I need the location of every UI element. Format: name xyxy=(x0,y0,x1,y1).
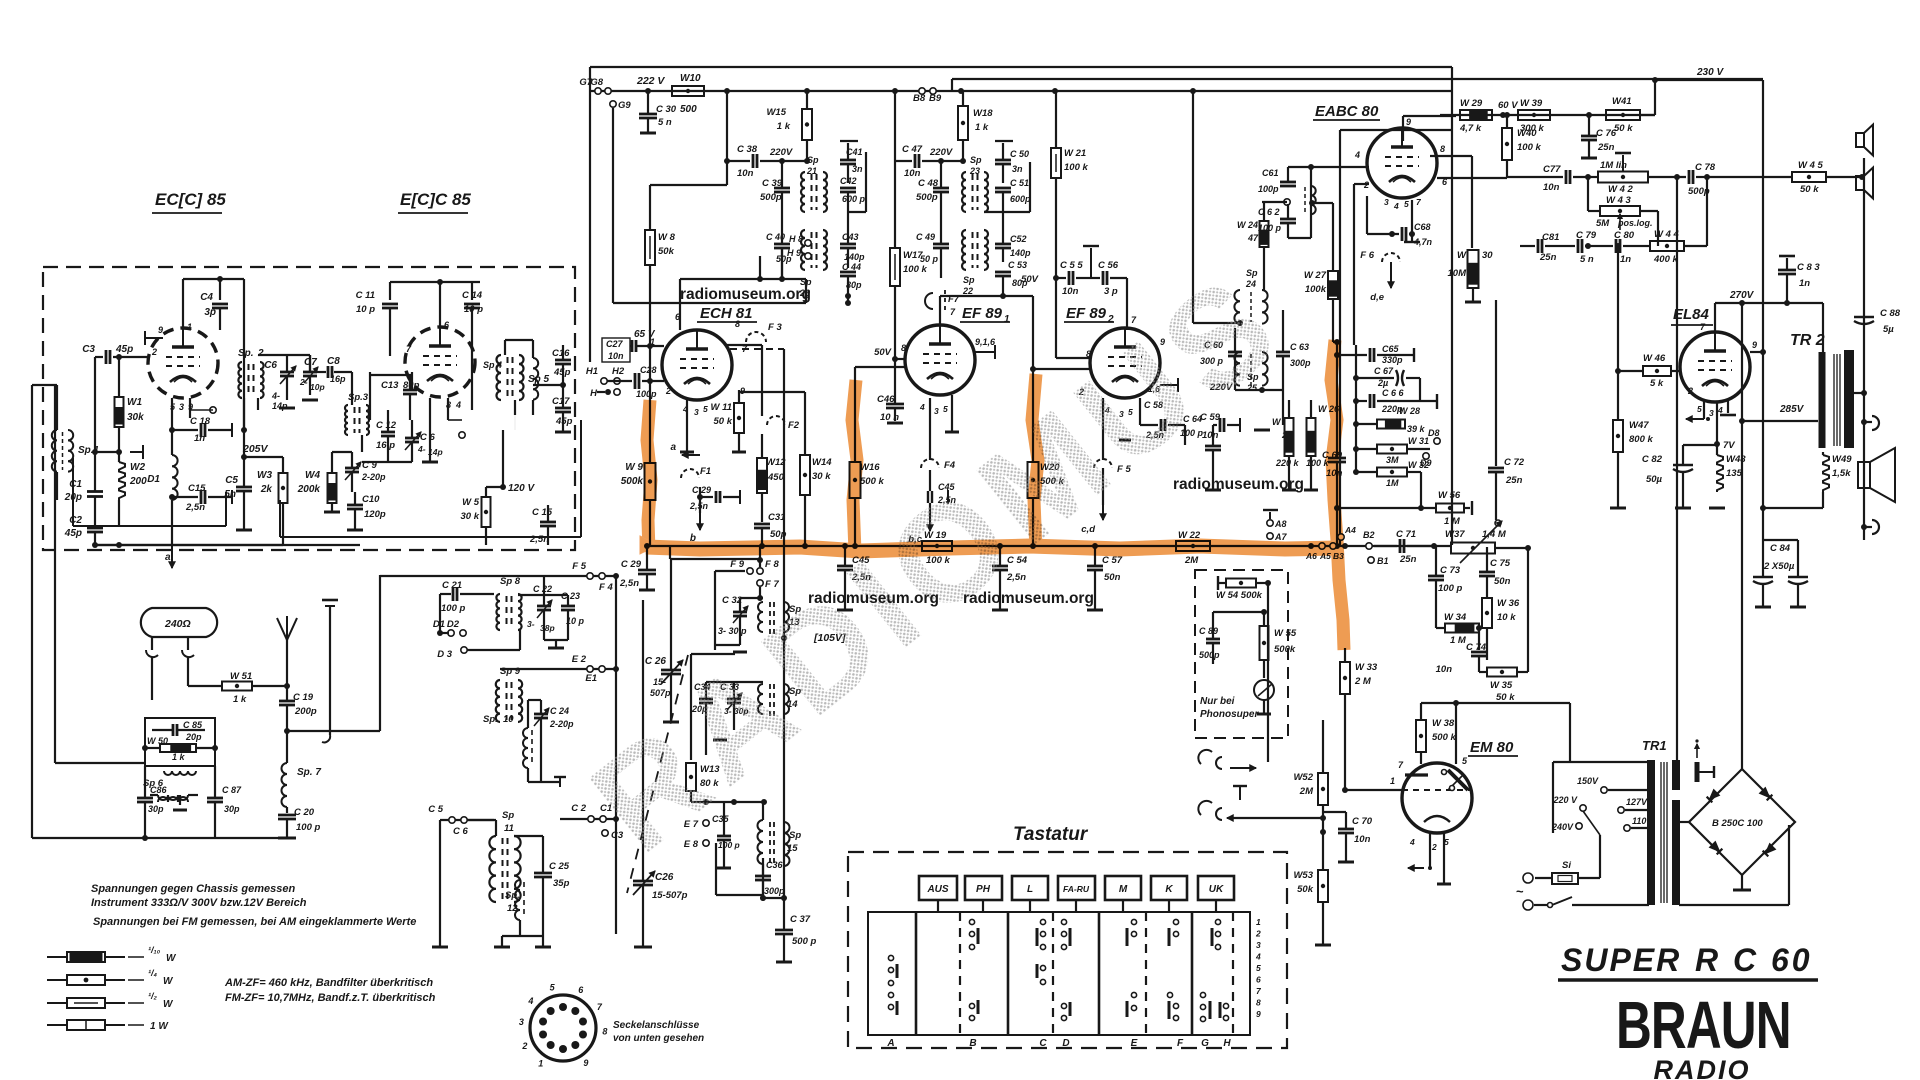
svg-text:4: 4 xyxy=(1409,837,1415,847)
svg-text:EF 89: EF 89 xyxy=(1066,305,1107,322)
svg-text:C 73: C 73 xyxy=(1440,565,1461,576)
svg-text:C31: C31 xyxy=(768,512,785,523)
TR1 windings xyxy=(1647,760,1655,905)
svg-text:C 76: C 76 xyxy=(1596,128,1617,139)
capacitor C78 500p xyxy=(1688,170,1691,184)
svg-text:W48: W48 xyxy=(1726,454,1746,465)
bulb 240 ohm xyxy=(141,608,217,637)
svg-text:200p: 200p xyxy=(294,706,317,717)
svg-text:C28: C28 xyxy=(640,365,657,375)
svg-text:W14: W14 xyxy=(812,457,832,468)
svg-text:C 25: C 25 xyxy=(549,861,570,872)
svg-text:47: 47 xyxy=(1247,233,1259,243)
svg-text:C77: C77 xyxy=(1543,164,1561,175)
svg-text:16 p: 16 p xyxy=(376,440,395,451)
capacitor C45c bus 2,5n xyxy=(837,565,853,568)
svg-text:W1: W1 xyxy=(127,397,142,408)
stub ground between xyxy=(1090,248,1092,278)
svg-text:8: 8 xyxy=(602,1027,607,1037)
svg-text:2: 2 xyxy=(1255,929,1261,939)
svg-text:10n: 10n xyxy=(1543,182,1560,193)
resistor W15 1k xyxy=(802,109,812,140)
resistor W27 100k xyxy=(1328,271,1338,299)
svg-text:W 36: W 36 xyxy=(1497,598,1520,609)
coil D1 choke xyxy=(172,455,178,500)
svg-text:50 k: 50 k xyxy=(1496,692,1515,703)
svg-text:EF 89: EF 89 xyxy=(962,305,1003,322)
svg-text:Seckelanschlüsse: Seckelanschlüsse xyxy=(613,1020,700,1031)
svg-text:W 11: W 11 xyxy=(711,402,732,413)
svg-text:2-20p: 2-20p xyxy=(361,472,386,482)
capacitor C39 500p xyxy=(774,187,790,190)
capacitor C52 140p xyxy=(995,243,1011,246)
svg-text:3n: 3n xyxy=(852,164,863,174)
svg-text:100p: 100p xyxy=(636,389,657,399)
svg-text:222 V: 222 V xyxy=(636,75,665,87)
capacitor C22 3-38p variable xyxy=(537,605,551,608)
svg-text:5: 5 xyxy=(943,404,948,414)
svg-text:4,7 k: 4,7 k xyxy=(1459,123,1482,134)
svg-text:C 18: C 18 xyxy=(190,416,211,427)
semicircle F3 xyxy=(746,332,766,342)
svg-text:50µ: 50µ xyxy=(1646,474,1663,485)
svg-text:80p: 80p xyxy=(846,280,862,290)
orange highlight vertical at C69 xyxy=(1331,340,1337,540)
resistor W18 1k xyxy=(958,106,968,140)
svg-text:1,5k: 1,5k xyxy=(1832,468,1851,479)
svg-text:C 56: C 56 xyxy=(1098,260,1119,271)
svg-text:C 39: C 39 xyxy=(762,178,783,189)
svg-text:radiomuseum.org: radiomuseum.org xyxy=(680,286,811,303)
svg-text:22: 22 xyxy=(962,286,973,296)
svg-text:C 15: C 15 xyxy=(532,507,553,518)
capacitor C57 50n bus xyxy=(1087,565,1103,568)
svg-text:2M: 2M xyxy=(1299,786,1314,797)
outer box right edge xyxy=(1451,67,1453,545)
svg-text:25n: 25n xyxy=(1399,554,1417,565)
svg-text:M: M xyxy=(1119,884,1128,895)
svg-text:W 5: W 5 xyxy=(462,497,480,508)
keyboard column separators xyxy=(915,912,918,1035)
svg-text:50 p: 50 p xyxy=(920,254,939,264)
svg-text:W: W xyxy=(163,976,174,987)
svg-text:C 6: C 6 xyxy=(420,432,436,443)
mains plug xyxy=(1523,873,1533,883)
contact set column F xyxy=(1173,919,1178,924)
svg-text:W53: W53 xyxy=(1293,870,1313,881)
svg-text:50 k: 50 k xyxy=(1800,184,1819,195)
svg-text:9: 9 xyxy=(1406,117,1411,127)
svg-text:W 27: W 27 xyxy=(1304,270,1327,281)
svg-text:A8: A8 xyxy=(1274,519,1287,529)
primary tap 220V xyxy=(1580,805,1586,811)
svg-text:SUPER: SUPER xyxy=(1561,942,1681,978)
svg-text:F 3: F 3 xyxy=(768,322,782,333)
svg-text:W 21: W 21 xyxy=(1064,148,1086,159)
svg-text:G: G xyxy=(1201,1038,1209,1049)
svg-text:A7: A7 xyxy=(1274,532,1287,542)
resistor W3 2k xyxy=(279,473,288,503)
svg-text:9: 9 xyxy=(1752,340,1757,350)
svg-text:2: 2 xyxy=(665,386,671,396)
capacitor C20 100p xyxy=(278,814,296,817)
primary tap 110V xyxy=(1624,825,1630,831)
capacitor C23 10p xyxy=(561,605,575,608)
terminal hook upper xyxy=(1864,421,1872,423)
svg-text:C27: C27 xyxy=(606,339,624,349)
svg-text:4: 4 xyxy=(455,400,461,410)
svg-text:Sp: Sp xyxy=(807,155,819,165)
resistor W51 1k xyxy=(222,682,252,691)
terminal C5 C6 xyxy=(440,819,494,821)
capacitor C88 5u electrolytic xyxy=(1854,316,1874,319)
resistor W35 50k xyxy=(1487,668,1517,677)
svg-text:100 k: 100 k xyxy=(903,264,927,275)
terminal E7 E8 xyxy=(703,820,709,826)
svg-text:radiomuseum.org: radiomuseum.org xyxy=(1173,476,1304,493)
svg-text:2-20p: 2-20p xyxy=(549,719,574,729)
legend resistor 1/2W xyxy=(47,1002,67,1004)
svg-text:500p: 500p xyxy=(760,192,782,203)
svg-text:FA-RU: FA-RU xyxy=(1063,884,1090,894)
svg-text:W4: W4 xyxy=(305,470,320,481)
capacitor C18 1n xyxy=(200,423,203,437)
svg-text:C 11: C 11 xyxy=(356,290,375,301)
terminal hook lower xyxy=(1864,526,1872,528)
wire 205V xyxy=(243,430,245,457)
resistor W39 300k xyxy=(1518,110,1550,120)
speaker small 1 xyxy=(1856,133,1864,147)
resistor W31 3M xyxy=(1377,445,1407,454)
svg-text:30 k: 30 k xyxy=(812,471,831,482)
wire eabc pin6 audio out xyxy=(1437,177,1507,179)
wire phones xyxy=(1228,761,1268,763)
capacitor C40 50p xyxy=(774,243,790,246)
svg-text:4-: 4- xyxy=(271,391,280,401)
resistor W43 5M pos log xyxy=(1600,206,1640,216)
wire plate loop xyxy=(243,279,245,430)
svg-text:D 3: D 3 xyxy=(437,649,453,660)
capacitor C11 10p xyxy=(389,282,391,300)
dashed gang link xyxy=(627,655,688,893)
wire C35 bottom link xyxy=(715,843,717,895)
svg-text:4: 4 xyxy=(1255,952,1261,962)
arrow a down xyxy=(171,545,173,568)
wire ech81 grid stub xyxy=(622,399,650,401)
svg-text:F2: F2 xyxy=(788,420,800,431)
grid stub pin 9 xyxy=(145,337,163,339)
svg-text:D: D xyxy=(1062,1038,1069,1049)
svg-text:C 80: C 80 xyxy=(1614,230,1635,241)
outer box top line xyxy=(590,66,1452,68)
svg-text:5: 5 xyxy=(1256,963,1261,973)
wire IF2 bottom xyxy=(940,295,1003,297)
wire tr2 secondary top xyxy=(1852,367,1875,369)
svg-text:2: 2 xyxy=(151,347,157,357)
svg-text:2: 2 xyxy=(1431,842,1437,852)
capacitor C19 200p xyxy=(279,700,295,703)
svg-text:30p: 30p xyxy=(148,804,164,814)
svg-text:1 k: 1 k xyxy=(777,121,791,132)
svg-text:W 34: W 34 xyxy=(1444,612,1467,623)
svg-text:C 37: C 37 xyxy=(790,914,811,925)
svg-text:50V: 50V xyxy=(874,347,892,358)
svg-text:10 p: 10 p xyxy=(356,304,375,315)
svg-text:500k: 500k xyxy=(1274,644,1296,655)
svg-text:F 6: F 6 xyxy=(1360,250,1374,261)
svg-text:450: 450 xyxy=(767,472,785,483)
capacitor C68 4,7n xyxy=(1401,227,1404,241)
svg-text:500k: 500k xyxy=(621,476,644,487)
resistor W14 30k xyxy=(800,455,810,495)
resistor W19 100k on bus xyxy=(922,541,952,551)
earth terminal xyxy=(322,337,600,339)
svg-text:8: 8 xyxy=(735,319,740,329)
svg-text:100 k: 100 k xyxy=(1064,162,1088,173)
semicircle F7 xyxy=(939,296,941,325)
svg-text:5 k: 5 k xyxy=(1650,378,1664,389)
svg-text:C 29: C 29 xyxy=(692,485,711,495)
svg-text:C 19: C 19 xyxy=(293,692,314,703)
svg-text:AM-ZF= 460 kHz, Bandfilter üb: AM-ZF= 460 kHz, Bandfilter überkritisch xyxy=(224,977,433,989)
terminal A4 xyxy=(1338,534,1344,540)
resistor W22 2M on bus xyxy=(1176,541,1210,551)
svg-text:2,5n: 2,5n xyxy=(689,501,709,511)
svg-text:C6: C6 xyxy=(264,360,277,371)
svg-text:300p: 300p xyxy=(764,886,785,896)
svg-text:50V: 50V xyxy=(1021,274,1039,285)
resistor W5 30k xyxy=(482,497,491,527)
capacitor C25 35p xyxy=(534,872,552,875)
svg-text:W 38: W 38 xyxy=(1432,718,1455,729)
primary tap 127V xyxy=(1618,807,1624,813)
orange highlight vertical at W16 xyxy=(852,380,857,552)
svg-text:C 9: C 9 xyxy=(362,460,378,471)
svg-text:39 k: 39 k xyxy=(1407,424,1426,434)
wire bottom rail xyxy=(95,544,244,546)
orange highlight horizontal AVC bus xyxy=(640,340,1344,650)
svg-text:C 89: C 89 xyxy=(1199,626,1218,636)
svg-text:EL84: EL84 xyxy=(1673,306,1710,323)
wire eabc pin2 to ladder xyxy=(1354,183,1369,185)
svg-text:8: 8 xyxy=(1440,144,1445,154)
anode top wire xyxy=(182,279,184,328)
svg-text:127V: 127V xyxy=(1626,797,1648,807)
svg-text:C 79: C 79 xyxy=(1576,230,1597,241)
svg-text:EC[C] 85: EC[C] 85 xyxy=(155,190,226,209)
capacitor C13 80p xyxy=(403,389,417,392)
resistor W1 30k xyxy=(115,397,124,427)
svg-text:B 250C 100: B 250C 100 xyxy=(1712,818,1763,829)
svg-text:Sp.: Sp. xyxy=(238,348,254,359)
svg-text:W 9: W 9 xyxy=(625,462,643,473)
svg-text:3: 3 xyxy=(1256,940,1261,950)
resistor W40 100k xyxy=(1502,128,1512,160)
svg-text:200: 200 xyxy=(129,476,147,487)
svg-text:8: 8 xyxy=(1256,998,1261,1008)
svg-text:10 p: 10 p xyxy=(464,304,483,315)
svg-text:5: 5 xyxy=(1697,404,1702,414)
svg-text:9,1,6: 9,1,6 xyxy=(975,337,996,347)
svg-text:Sp: Sp xyxy=(963,275,975,285)
svg-text:500 p: 500 p xyxy=(792,936,816,947)
svg-text:C15: C15 xyxy=(188,483,206,494)
svg-text:1 k: 1 k xyxy=(172,752,186,762)
resistor W25 220k xyxy=(1285,418,1294,456)
capacitor C3 45p xyxy=(105,350,108,364)
capacitor C14 10p xyxy=(471,282,473,300)
svg-text:C 5: C 5 xyxy=(428,804,444,815)
svg-text:30 k: 30 k xyxy=(461,511,480,522)
wire el84 g9 230V xyxy=(1750,351,1763,353)
svg-text:B9: B9 xyxy=(929,93,942,104)
svg-text:2-: 2- xyxy=(299,377,308,387)
svg-text:a: a xyxy=(165,552,171,563)
resistor W53 50k xyxy=(1318,870,1328,902)
svg-text:H: H xyxy=(590,388,598,399)
coil Sp.1 xyxy=(52,430,57,472)
resistor W45 50k xyxy=(1792,172,1826,182)
svg-text:W40: W40 xyxy=(1517,128,1537,139)
capacitor C6b 4-14p variable xyxy=(405,437,419,440)
svg-text:C1: C1 xyxy=(69,479,82,490)
svg-text:2k: 2k xyxy=(260,484,273,495)
key M xyxy=(1105,876,1141,900)
svg-text:Sp: Sp xyxy=(1246,268,1258,278)
svg-text:100 p: 100 p xyxy=(441,603,465,614)
tube2 cathode wires xyxy=(429,398,431,462)
svg-text:11: 11 xyxy=(504,823,514,834)
svg-text:3n: 3n xyxy=(1012,164,1023,174)
svg-text:C 20: C 20 xyxy=(294,807,315,818)
svg-text:100k: 100k xyxy=(1305,284,1327,295)
capacitor C48 500p xyxy=(933,187,949,190)
wire long vertical mid xyxy=(615,576,617,934)
capacitor C28 100p xyxy=(634,373,637,389)
wire F9 box link xyxy=(670,558,760,560)
wire G9 to hexode grid xyxy=(612,108,614,303)
svg-text:5 n: 5 n xyxy=(1580,254,1594,265)
svg-text:10n: 10n xyxy=(608,351,624,361)
wire W10 down leg xyxy=(726,91,728,185)
terminal D1 D2 D3 xyxy=(448,630,454,636)
svg-text:1: 1 xyxy=(1390,776,1395,786)
terminal B2 B1 xyxy=(1366,543,1372,549)
svg-text:30k: 30k xyxy=(127,412,144,423)
wire resonator top xyxy=(258,354,310,356)
svg-text:60 V: 60 V xyxy=(1498,100,1518,111)
svg-text:5 n: 5 n xyxy=(658,117,672,128)
svg-text:C 78: C 78 xyxy=(1695,162,1716,173)
wire ef89b grid feed xyxy=(1003,295,1033,297)
orange arrow at W9 corner xyxy=(640,536,658,554)
wire AM feed left xyxy=(287,730,380,732)
svg-text:D2: D2 xyxy=(447,619,460,630)
svg-text:W 56: W 56 xyxy=(1438,490,1461,501)
key AUS xyxy=(919,876,957,900)
resistor W41 50k xyxy=(1606,110,1640,120)
svg-text:C 21: C 21 xyxy=(442,580,462,591)
capacitor C17 45p xyxy=(555,407,571,410)
svg-text:5M: 5M xyxy=(1596,218,1610,229)
svg-text:220 V: 220 V xyxy=(1552,795,1578,805)
svg-text:C65: C65 xyxy=(1382,344,1400,354)
svg-text:C 48: C 48 xyxy=(918,178,939,189)
svg-text:d,e: d,e xyxy=(1370,292,1384,303)
resistor W16 500k xyxy=(850,462,861,498)
svg-text:1 k: 1 k xyxy=(975,122,989,133)
terminal C2 C1 C3 xyxy=(560,818,616,820)
svg-text:C 71: C 71 xyxy=(1396,529,1416,540)
svg-text:W 24: W 24 xyxy=(1237,220,1258,230)
svg-text:270V: 270V xyxy=(1729,290,1755,301)
primary tap 150V xyxy=(1601,787,1607,793)
capacitor C76 25n xyxy=(1581,135,1597,138)
svg-text:500 k: 500 k xyxy=(1432,732,1456,743)
svg-text:45p: 45p xyxy=(115,344,133,355)
svg-text:UK: UK xyxy=(1209,884,1224,895)
capacitor C38 10n xyxy=(752,154,755,168)
svg-text:2µ: 2µ xyxy=(1377,378,1388,388)
wire ef89b pin8 from 50V xyxy=(1055,278,1057,358)
potentiometer W42 1M lin xyxy=(1598,172,1648,183)
svg-text:C 6 2: C 6 2 xyxy=(1258,207,1280,217)
selector wire xyxy=(1563,761,1565,763)
svg-text:1 k: 1 k xyxy=(233,694,247,705)
svg-text:330p: 330p xyxy=(1382,355,1403,365)
svg-text:2M: 2M xyxy=(1184,555,1199,566)
svg-text:W 55: W 55 xyxy=(1274,628,1297,639)
outer box left edge xyxy=(589,67,591,362)
key FA-RU xyxy=(1058,876,1095,900)
svg-text:W47: W47 xyxy=(1629,420,1649,431)
wire box bottom rail right xyxy=(430,544,563,546)
svg-text:3: 3 xyxy=(1384,197,1389,207)
svg-text:C 49: C 49 xyxy=(916,232,935,242)
bridge connections xyxy=(1679,821,1689,823)
svg-text:C 40: C 40 xyxy=(766,232,785,242)
wire secondary tap xyxy=(1853,392,1864,394)
svg-text:100 k: 100 k xyxy=(1517,142,1541,153)
svg-text:C52: C52 xyxy=(1010,234,1027,244)
svg-text:2 X50µ: 2 X50µ xyxy=(1763,561,1795,572)
legend resistor 1/10W xyxy=(47,956,67,958)
svg-text:B: B xyxy=(969,1038,976,1049)
capacitor C41 3n xyxy=(840,159,856,162)
svg-text:RADIO: RADIO xyxy=(1654,1055,1751,1080)
svg-text:W10: W10 xyxy=(680,73,701,84)
capacitor C6 4-14p variable xyxy=(280,371,294,374)
svg-text:3: 3 xyxy=(179,402,184,412)
orange highlight vertical at W9 xyxy=(647,400,651,552)
resistor W9 500k on AVC line xyxy=(645,463,656,500)
dashed enclosure FM front-end box xyxy=(43,267,575,550)
svg-text:W 51: W 51 xyxy=(230,671,252,682)
resistor W49 1,5k wirewound xyxy=(1823,455,1829,492)
potentiometer W37 1,4M xyxy=(1451,543,1495,554)
svg-text:W3: W3 xyxy=(257,470,272,481)
capacitor C15 2,5n xyxy=(200,490,203,504)
svg-text:50n: 50n xyxy=(1494,576,1511,587)
resistor W48 135 wirewound xyxy=(1717,455,1723,492)
svg-text:20p: 20p xyxy=(185,732,202,742)
svg-text:A: A xyxy=(886,1038,894,1049)
svg-text:110V: 110V xyxy=(1632,816,1653,826)
semicircle F1 xyxy=(681,469,699,478)
svg-text:Tastatur: Tastatur xyxy=(1013,824,1089,845)
resistor W47 800k xyxy=(1613,420,1623,452)
svg-text:TR1: TR1 xyxy=(1642,738,1667,753)
